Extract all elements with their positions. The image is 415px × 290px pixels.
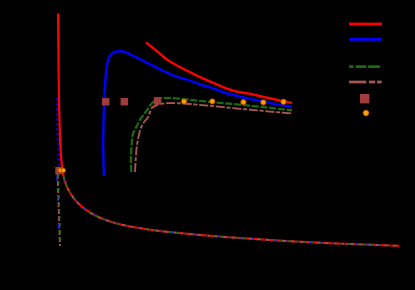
brown dashed upper curve <box>135 103 292 172</box>
circle marker C2 <box>61 168 65 172</box>
blue specks along lower tail <box>64 176 400 246</box>
blue upper curve <box>103 51 292 176</box>
legend red line <box>349 23 382 26</box>
square marker S4 <box>154 97 161 104</box>
square marker S2 <box>102 98 109 105</box>
circle marker C3 <box>181 99 186 104</box>
red curve: steep spike and long lower tail <box>58 14 399 246</box>
legend blue line <box>349 38 382 41</box>
legend square marker <box>360 94 369 103</box>
red upper curve <box>146 43 292 104</box>
square marker S3 <box>121 98 128 105</box>
circle marker C7 <box>281 99 286 104</box>
circle marker C1 <box>58 168 62 172</box>
blue curve left steep segment (behind red spike) <box>57 98 60 170</box>
green curve lower branch below marker <box>58 174 60 243</box>
legend green dashed line <box>349 65 380 68</box>
circle marker C4 <box>210 99 215 104</box>
circle marker C6 <box>261 100 266 105</box>
brown dashes along lower tail <box>64 176 400 246</box>
legend circle marker <box>363 110 368 115</box>
brown curve lower branch below marker <box>58 174 60 246</box>
square marker S1 <box>55 167 62 174</box>
blue specks on lower branch bundle <box>57 176 59 229</box>
legend brown dashed line <box>349 81 382 84</box>
circle marker C5 <box>241 100 246 105</box>
green dashed upper curve <box>131 98 292 172</box>
green dashes along lower tail <box>64 176 400 246</box>
